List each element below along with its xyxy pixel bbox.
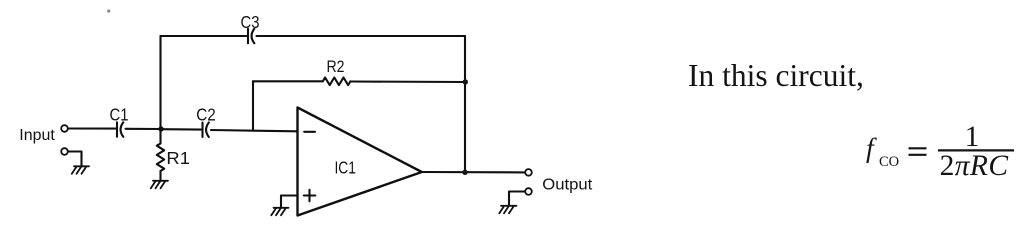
- svg-text:R2: R2: [327, 57, 345, 76]
- node A junction dot: [158, 126, 163, 131]
- wire R2 to right vertical: [350, 80, 465, 83]
- op-amp plus sign: [304, 190, 316, 202]
- wire op-amp plus input lead: [281, 196, 298, 208]
- wire top left segment to C3: [161, 35, 247, 37]
- wire lower input terminal to ground: [68, 152, 81, 167]
- svg-text:In this circuit,: In this circuit,: [688, 58, 864, 93]
- node Output terminal circle: [525, 169, 532, 176]
- op-amp U1 triangle: [298, 108, 422, 216]
- svg-text:IC1: IC1: [334, 158, 356, 178]
- wire R1 to ground: [159, 171, 161, 181]
- ground below R1: [151, 181, 168, 189]
- svg-text:2πRC: 2πRC: [940, 150, 1009, 182]
- ground below op-amp plus input: [271, 208, 288, 216]
- ground below output lower terminal: [499, 206, 516, 214]
- wire left vertical junction to top C3 branch: [159, 36, 161, 129]
- wire C2 to op-amp inverting input: [211, 130, 297, 131]
- wire right vertical top to output node: [464, 36, 466, 172]
- resistor R1: [157, 144, 164, 172]
- formula fraction bar: [938, 149, 1014, 151]
- svg-text:1: 1: [965, 121, 980, 153]
- svg-text:Input: Input: [19, 127, 55, 144]
- op-amp minus sign: [304, 131, 315, 133]
- svg-text:R1: R1: [166, 148, 190, 168]
- capacitor C1: [117, 122, 123, 137]
- capacitor C2: [203, 123, 209, 138]
- node Input terminal circle: [61, 125, 68, 132]
- wire R2 branch vertical down to input wire: [252, 81, 254, 130]
- resistor R2: [323, 78, 351, 86]
- wire output lower terminal to ground: [509, 192, 525, 206]
- wire C1 to junction node A: [126, 128, 161, 130]
- formula equals sign: [909, 148, 927, 155]
- svg-text:CO: CO: [879, 154, 899, 170]
- wire junction to C2: [161, 128, 201, 131]
- ground below input lower terminal: [72, 166, 89, 174]
- resistor R1 lead from node A: [159, 129, 161, 144]
- node junction dot R2 right: [463, 79, 468, 84]
- svg-text:f: f: [866, 132, 877, 163]
- wire input terminal to C1: [68, 127, 115, 129]
- svg-text:C1: C1: [110, 104, 129, 124]
- svg-text:C2: C2: [196, 105, 216, 125]
- svg-text:C3: C3: [241, 12, 260, 32]
- svg-text:Output: Output: [542, 176, 593, 193]
- capacitor C3: [248, 29, 254, 44]
- node input lower terminal circle: [61, 148, 68, 155]
- node output lower terminal circle: [525, 188, 532, 195]
- node output junction dot: [462, 170, 467, 175]
- wire R2 branch left segment: [253, 80, 323, 82]
- wire op-amp output to output terminal: [422, 171, 525, 173]
- wire C3 to right vertical: [257, 35, 466, 37]
- scan artifact dot: [107, 9, 110, 12]
